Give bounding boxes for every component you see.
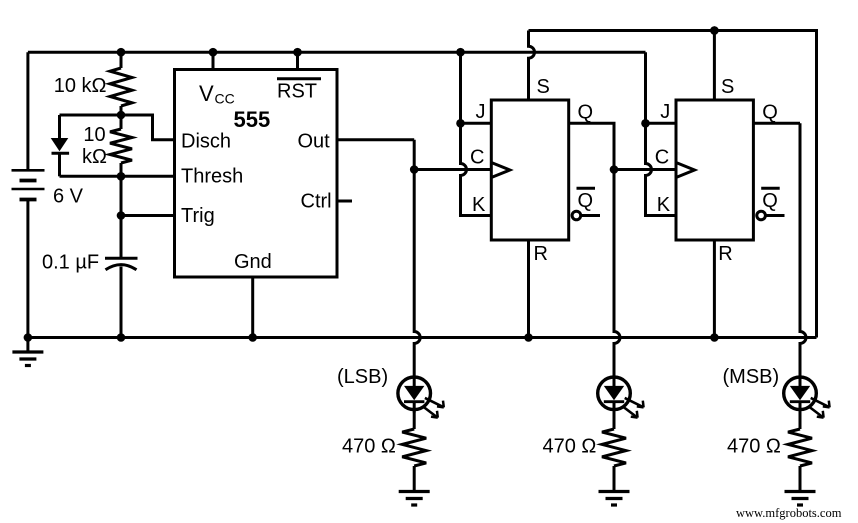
- svg-text:Gnd: Gnd: [234, 251, 272, 273]
- wire Qbar stub FF1: [581, 214, 600, 217]
- svg-text:470 Ω: 470 Ω: [543, 436, 597, 458]
- wire battery negative lead: [26, 200, 29, 338]
- wire Vcc pin stub: [212, 52, 215, 69]
- wire Q output FF2 to LED3 with rail hop: [753, 123, 806, 377]
- wire R pin FF2: [713, 240, 716, 338]
- svg-text:S: S: [537, 76, 550, 98]
- wire RST pin stub: [296, 52, 299, 69]
- wire Thresh: [121, 175, 175, 178]
- node Trig junction: [117, 211, 126, 220]
- wire Trig: [121, 214, 175, 217]
- node R pin FF2 rail junction: [710, 333, 719, 342]
- resistor R2 10 k&#937;: [110, 115, 132, 176]
- wire to Disch pin: [121, 115, 175, 140]
- battery B1 6 V: [12, 170, 45, 199]
- node battery-ground junction: [24, 333, 33, 342]
- svg-text:Q: Q: [578, 101, 594, 123]
- ground battery: [12, 338, 43, 366]
- label 10 k&#937; two lines: [82, 124, 107, 168]
- svg-text:CC: CC: [215, 91, 235, 107]
- node Q1-C2 junction: [610, 165, 619, 174]
- label R FF1: [534, 243, 548, 265]
- flip-flop U3 box: [676, 100, 753, 240]
- wire R pin FF1: [527, 240, 530, 338]
- wire Ctrl stub: [337, 200, 352, 203]
- svg-text:10: 10: [83, 124, 105, 146]
- svg-text:(MSB): (MSB): [723, 366, 780, 388]
- wire J pin FF1: [461, 122, 492, 125]
- wire J pin FF2: [646, 122, 677, 125]
- label 470 ohm LSB: [342, 436, 396, 458]
- label Trig: [181, 205, 215, 227]
- svg-text:C: C: [470, 147, 484, 169]
- label Qbar FF1: [577, 188, 596, 212]
- Qbar bubble FF1: [572, 211, 581, 220]
- Qbar bubble FF2: [757, 211, 766, 220]
- ground LED3: [785, 492, 816, 506]
- wire Q output FF1: [569, 123, 614, 169]
- svg-text:R: R: [534, 243, 548, 265]
- svg-text:K: K: [472, 194, 486, 216]
- node Gnd rail junction: [248, 333, 257, 342]
- label K FF1: [472, 194, 486, 216]
- svg-text:V: V: [199, 81, 214, 106]
- node J-K rail junction FF1: [456, 48, 465, 57]
- resistor R3 470 ohm: [402, 409, 426, 491]
- wire top rail (S-R ground return rail): [529, 31, 817, 338]
- node Thresh junction: [117, 172, 126, 181]
- label Q FF1: [578, 101, 594, 123]
- label Disch: [181, 131, 231, 153]
- label Thresh: [181, 166, 243, 188]
- label K FF2: [657, 194, 671, 216]
- node R pin FF1 rail junction: [524, 333, 533, 342]
- svg-text:S: S: [721, 76, 734, 98]
- node S pin FF2 rail junction: [710, 26, 719, 35]
- label (LSB): [337, 366, 388, 388]
- label 6 V: [53, 186, 84, 208]
- wire VCC rail: [28, 51, 646, 54]
- wire bottom ground rail: [28, 336, 817, 339]
- node J pin junction FF1: [456, 119, 465, 128]
- svg-text:www.mfgrobots.com: www.mfgrobots.com: [736, 506, 842, 520]
- label 470 ohm MSB: [727, 436, 781, 458]
- svg-text:Disch: Disch: [181, 131, 231, 153]
- diode D1: [51, 115, 69, 176]
- label 0.1 uF: [42, 252, 99, 274]
- svg-text:J: J: [476, 101, 486, 123]
- svg-text:Ctrl: Ctrl: [301, 191, 332, 213]
- label 470 ohm middle: [543, 436, 597, 458]
- wire J-K tie FF1 with hop: [461, 52, 492, 215]
- svg-text:Trig: Trig: [181, 205, 215, 227]
- LED D4 MSB: [784, 377, 830, 418]
- wire battery positive lead: [26, 52, 29, 170]
- LED D3 middle: [598, 377, 644, 418]
- label Q FF2: [762, 101, 778, 123]
- svg-text:470 Ω: 470 Ω: [727, 436, 781, 458]
- svg-text:Q: Q: [762, 101, 778, 123]
- wire clock input FF1: [414, 168, 491, 171]
- label Vcc: [199, 81, 235, 107]
- label S FF2: [721, 76, 734, 98]
- ground LED2: [599, 492, 630, 506]
- resistor R1 10 k&#937;: [110, 52, 132, 115]
- capacitor C1 0.1 uF: [105, 216, 138, 338]
- wire Out pin: [337, 138, 414, 141]
- wire Thresh-Trig link: [120, 176, 123, 215]
- node S2 top rail junction: [710, 26, 719, 35]
- wire Out vertical to LED1 with rail hop: [414, 140, 420, 378]
- clock chevron FF2: [676, 163, 695, 178]
- wire J-K tie FF2 with hop: [646, 52, 677, 215]
- label Qbar FF2: [761, 188, 780, 212]
- wire diode bottom: [60, 175, 122, 178]
- resistor R5 470 ohm: [788, 409, 812, 491]
- svg-text:0.1 µF: 0.1 µF: [42, 252, 99, 274]
- node J pin junction FF2: [641, 119, 650, 128]
- watermark www.mfgrobots.com: [736, 506, 842, 520]
- svg-text:470 Ω: 470 Ω: [342, 436, 396, 458]
- svg-text:10 kΩ: 10 kΩ: [54, 75, 107, 97]
- label R FF2: [718, 243, 732, 265]
- svg-text:R: R: [718, 243, 732, 265]
- svg-text:RST: RST: [277, 81, 317, 103]
- wire Gnd pin: [251, 277, 254, 338]
- node RST rail junction: [293, 48, 302, 57]
- svg-text:555: 555: [234, 107, 271, 132]
- svg-text:K: K: [657, 194, 671, 216]
- label S FF1: [537, 76, 550, 98]
- svg-text:6 V: 6 V: [53, 186, 84, 208]
- wire clock input FF2: [614, 168, 676, 171]
- label RST with overline: [277, 79, 321, 103]
- svg-text:J: J: [660, 101, 670, 123]
- label Ctrl: [301, 191, 332, 213]
- label J FF2: [660, 101, 670, 123]
- node Vcc rail junction: [209, 48, 218, 57]
- node VCC rail to R1: [117, 48, 126, 57]
- label C FF1: [470, 147, 484, 169]
- node R1-R2-D1-Disch junction: [117, 111, 126, 120]
- label Out: [298, 131, 331, 153]
- op-amp U1 555 timer box: [175, 70, 338, 278]
- svg-text:Thresh: Thresh: [181, 166, 243, 188]
- svg-text:C: C: [655, 147, 669, 169]
- clock chevron FF1: [491, 163, 510, 178]
- label C FF2: [655, 147, 669, 169]
- LED D2 LSB: [398, 377, 444, 418]
- node capacitor-ground rail: [117, 333, 126, 342]
- node Out-C1 junction: [410, 165, 419, 174]
- svg-text:kΩ: kΩ: [82, 146, 107, 168]
- wire Qbar stub FF2: [765, 214, 784, 217]
- wire S pin FF2: [713, 31, 716, 101]
- wire diode top: [60, 114, 122, 117]
- svg-text:Q: Q: [762, 190, 778, 212]
- resistor R4 470 ohm: [602, 409, 626, 491]
- svg-text:Q: Q: [578, 190, 594, 212]
- flip-flop U2 box: [491, 100, 568, 240]
- label 10 k&#937;: [54, 75, 107, 97]
- wire S pin FF1 with rail hop: [529, 31, 535, 101]
- label (MSB): [723, 366, 780, 388]
- svg-text:Out: Out: [298, 131, 331, 153]
- label 555: [234, 107, 271, 132]
- ground LED1: [399, 492, 430, 506]
- label J FF1: [476, 101, 486, 123]
- wire Q1 vertical to LED2 with rail hop: [614, 170, 620, 378]
- svg-text:(LSB): (LSB): [337, 366, 388, 388]
- label Gnd: [234, 251, 272, 273]
